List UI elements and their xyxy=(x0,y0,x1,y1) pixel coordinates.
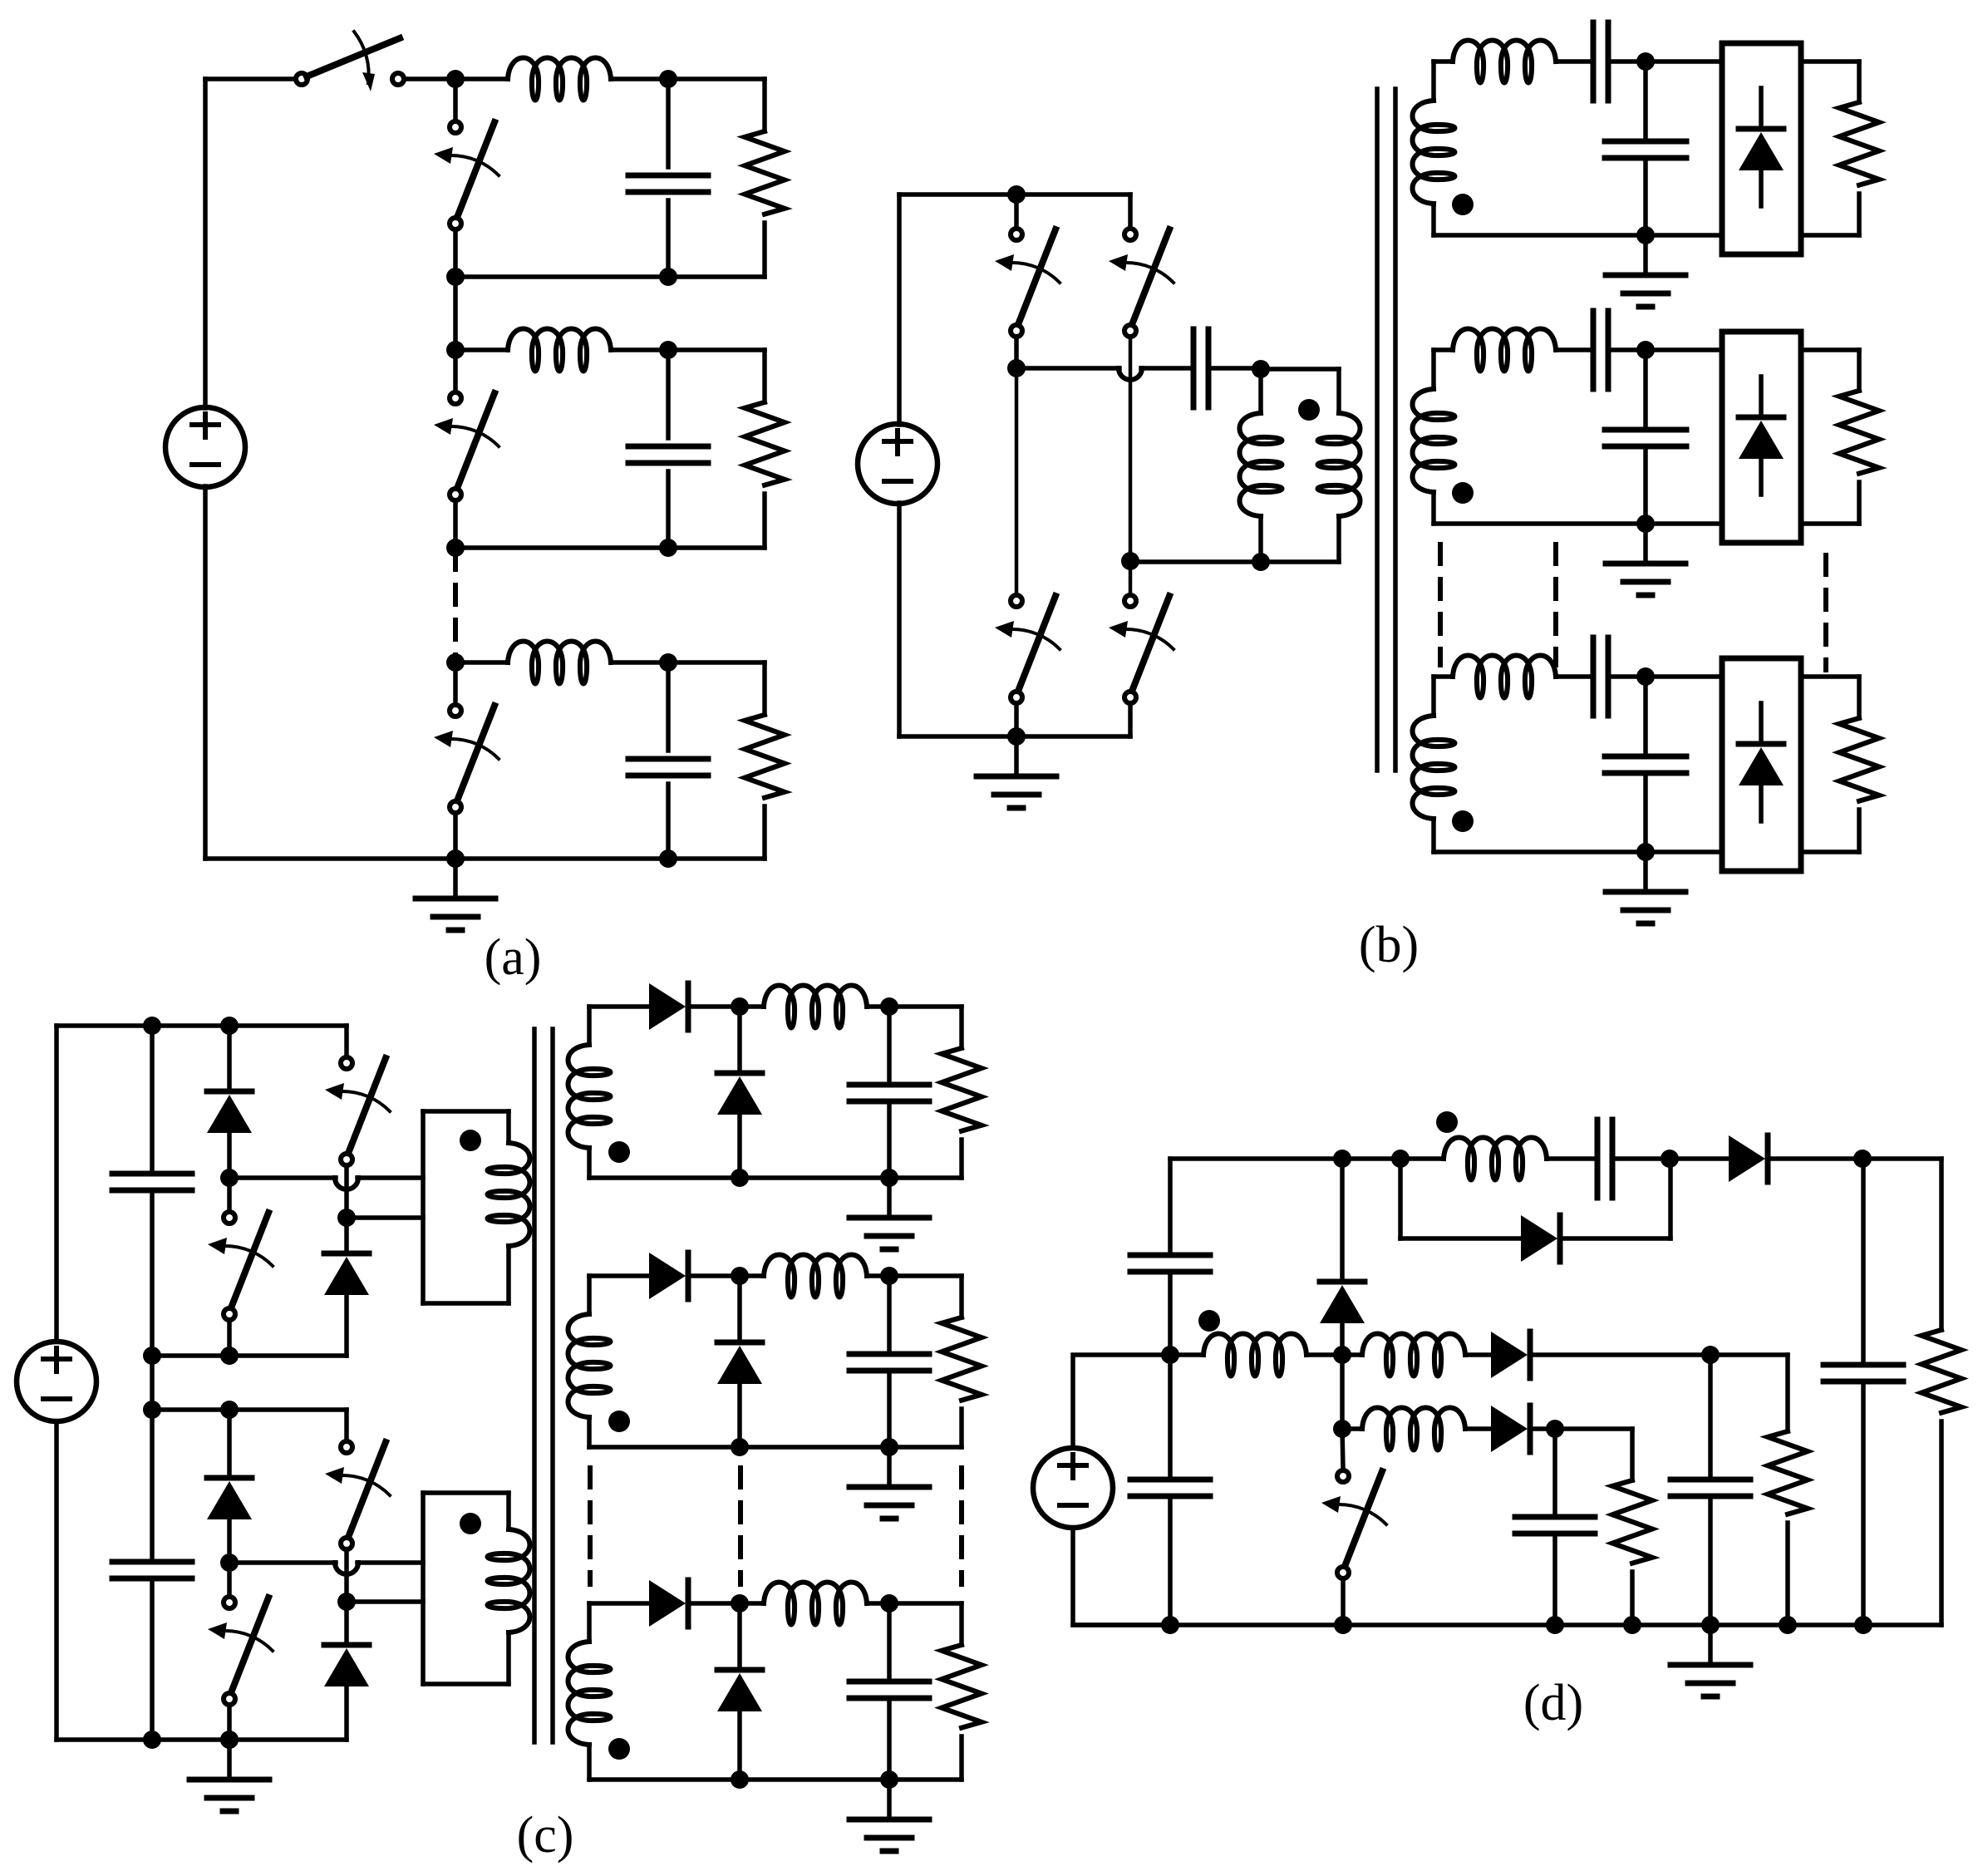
svg-text:(b): (b) xyxy=(1359,917,1419,973)
svg-text:(a): (a) xyxy=(485,929,542,986)
svg-text:(c): (c) xyxy=(517,1807,574,1864)
svg-text:(d): (d) xyxy=(1523,1675,1583,1731)
